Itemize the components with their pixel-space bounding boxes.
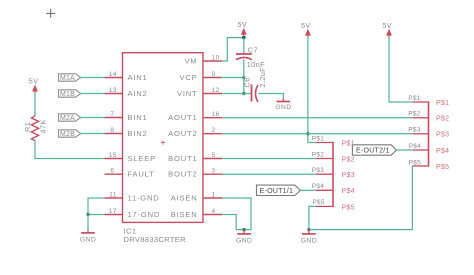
svg-text:M1B: M1B bbox=[60, 91, 75, 98]
svg-text:15: 15 bbox=[109, 152, 117, 159]
wire AOUT1 pin 16 to connector 2 P$2 bbox=[222, 117, 413, 119]
label flag M2B bbox=[59, 130, 81, 138]
svg-text:VINT: VINT bbox=[177, 89, 198, 98]
svg-text:P$3: P$3 bbox=[436, 132, 449, 139]
svg-text:P$2: P$2 bbox=[342, 156, 355, 163]
wire 5V to R1 top bbox=[34, 93, 36, 117]
resistor R1 bbox=[23, 116, 48, 141]
svg-text:5V: 5V bbox=[238, 20, 248, 29]
svg-text:GND: GND bbox=[275, 104, 291, 111]
wire E-OUT1/1 to connector 1 P$4 bbox=[300, 189, 316, 191]
svg-text:P$5: P$5 bbox=[342, 204, 355, 211]
wire E-OUT2/1 to connector 2 P$4 bbox=[396, 149, 412, 151]
wire BISEN pin 4 to GND bbox=[222, 215, 244, 230]
capacitor C6 bbox=[243, 67, 267, 102]
svg-text:P$2: P$2 bbox=[312, 151, 324, 158]
svg-text:P$4: P$4 bbox=[409, 143, 421, 150]
wire C6 right to GND bbox=[258, 94, 283, 99]
svg-text:M1A: M1A bbox=[60, 75, 75, 82]
svg-text:17: 17 bbox=[109, 208, 117, 215]
svg-text:GND: GND bbox=[80, 237, 96, 244]
svg-text:11-GND: 11-GND bbox=[128, 194, 160, 203]
svg-text:GND: GND bbox=[301, 237, 317, 244]
svg-text:1: 1 bbox=[212, 192, 216, 199]
svg-text:P$2: P$2 bbox=[436, 116, 449, 123]
svg-text:AISEN: AISEN bbox=[171, 194, 198, 203]
svg-text:47K: 47K bbox=[38, 119, 47, 133]
svg-text:P$2: P$2 bbox=[408, 111, 420, 118]
wire C7 bottom to VINT net bbox=[243, 60, 245, 94]
connector E-OUT1 pin names bbox=[342, 140, 355, 211]
IC1 left pin numbers bbox=[109, 71, 117, 215]
wire M2B to BIN2 bbox=[81, 133, 105, 135]
svg-text:P$3: P$3 bbox=[312, 167, 324, 174]
IC1 right pin numbers bbox=[212, 55, 220, 216]
svg-text:5V: 5V bbox=[301, 21, 311, 30]
wire pin 17-GND to vertical bbox=[88, 214, 105, 216]
supply 5V (top middle) bbox=[301, 21, 311, 37]
junction VCP / C7 vertical bbox=[242, 76, 245, 79]
supply 5V (left, above R1) bbox=[29, 76, 39, 93]
svg-text:5: 5 bbox=[212, 152, 216, 159]
svg-text:3: 3 bbox=[212, 168, 216, 175]
supply 5V (top right) bbox=[382, 21, 392, 37]
svg-text:AOUT1: AOUT1 bbox=[168, 113, 197, 122]
svg-text:FAULT: FAULT bbox=[128, 170, 155, 179]
label flag M1B bbox=[59, 90, 81, 98]
wire M1A to AIN1 bbox=[81, 77, 105, 79]
ground GND (below AISEN/BISEN) bbox=[236, 230, 252, 245]
wire VCP pin 9 to C7/VINT vertical bbox=[221, 77, 244, 79]
svg-text:AIN2: AIN2 bbox=[128, 89, 148, 98]
svg-text:AOUT2: AOUT2 bbox=[168, 129, 197, 138]
svg-text:BIN1: BIN1 bbox=[128, 113, 148, 122]
svg-text:P$1: P$1 bbox=[436, 100, 449, 107]
wire M1B to AIN2 bbox=[81, 93, 105, 95]
junction AOUT2 net / 5V vertical bbox=[306, 132, 309, 135]
svg-text:VCP: VCP bbox=[179, 73, 197, 82]
wire connector 1 P$5 to GND junction bbox=[309, 206, 316, 229]
svg-text:11: 11 bbox=[109, 192, 117, 199]
svg-text:16: 16 bbox=[212, 111, 220, 118]
sheet origin cross bbox=[46, 9, 55, 18]
net labels at connector E-OUT2 bbox=[408, 95, 421, 167]
svg-text:BIN2: BIN2 bbox=[128, 129, 148, 138]
svg-text:P$4: P$4 bbox=[342, 188, 355, 195]
wire GND junction to connector 2 P$5 bbox=[309, 166, 413, 230]
wire VINT pin 12 to C6 bbox=[222, 93, 251, 95]
label flag E-OUT2/1 bbox=[352, 145, 396, 155]
wire VM pin 10 up to 5V junction bbox=[222, 38, 244, 61]
svg-text:12: 12 bbox=[212, 87, 220, 94]
wire R1 bottom to SLEEP pin 15 bbox=[35, 141, 105, 159]
IC1 left pin stubs bbox=[105, 78, 123, 215]
svg-text:VM: VM bbox=[185, 57, 198, 66]
svg-text:BOUT1: BOUT1 bbox=[168, 154, 197, 163]
svg-text:9: 9 bbox=[212, 71, 216, 78]
wire junction down to GND bbox=[87, 215, 89, 231]
svg-text:P$5: P$5 bbox=[313, 199, 325, 206]
IC1 origin cross bbox=[161, 140, 165, 144]
op-amp IC1 DRV8833CRTER body bbox=[123, 53, 204, 223]
svg-text:DRV8833CRTER: DRV8833CRTER bbox=[124, 235, 187, 244]
connector E-OUT1 body bbox=[332, 142, 334, 208]
svg-text:R1: R1 bbox=[23, 122, 32, 132]
svg-text:14: 14 bbox=[109, 71, 117, 78]
svg-text:13: 13 bbox=[109, 87, 117, 94]
IC1 right pin stubs bbox=[203, 61, 222, 215]
label flag M2A bbox=[59, 114, 81, 122]
svg-text:5V: 5V bbox=[29, 76, 39, 85]
IC1 left pin names bbox=[128, 73, 161, 219]
junction C7/VINT bbox=[242, 92, 245, 95]
connector E-OUT2 pin stubs bbox=[413, 102, 429, 166]
svg-text:2.2uF: 2.2uF bbox=[258, 67, 267, 88]
wire 5V down to connector 1 pin P$1 bbox=[308, 37, 316, 143]
svg-text:P$1: P$1 bbox=[312, 135, 324, 142]
wire BOUT1 pin 5 to connector 1 P$2 bbox=[222, 158, 316, 160]
svg-text:C7: C7 bbox=[248, 45, 258, 54]
svg-text:4: 4 bbox=[212, 208, 216, 215]
svg-text:M2B: M2B bbox=[60, 131, 75, 138]
svg-text:7: 7 bbox=[110, 111, 114, 118]
ground GND (left, under IC) bbox=[80, 230, 96, 244]
junction VM/5V/C7 bbox=[242, 36, 246, 40]
svg-text:6: 6 bbox=[110, 168, 114, 175]
svg-text:P$4: P$4 bbox=[436, 148, 449, 155]
label flag M1A bbox=[59, 74, 81, 82]
connector E-OUT2 body bbox=[428, 101, 430, 166]
svg-text:GND: GND bbox=[236, 237, 252, 244]
wire junction down to C7 bbox=[243, 38, 245, 54]
wire AISEN pin 1 to GND bbox=[222, 198, 251, 230]
svg-text:SLEEP: SLEEP bbox=[128, 154, 156, 163]
svg-text:P$3: P$3 bbox=[408, 127, 420, 134]
svg-text:E-OUT1/1: E-OUT1/1 bbox=[260, 187, 294, 195]
svg-text:5V: 5V bbox=[382, 21, 392, 30]
svg-text:8: 8 bbox=[110, 127, 114, 134]
IC1 right pin names bbox=[168, 57, 197, 220]
ground GND (bottom middle) bbox=[301, 230, 317, 245]
wire pin 11-GND to vertical bbox=[88, 198, 105, 215]
svg-text:AIN1: AIN1 bbox=[128, 73, 148, 82]
connector E-OUT2 pin names bbox=[436, 100, 449, 171]
net labels at connector E-OUT1 bbox=[312, 135, 325, 206]
svg-text:E-OUT2/1: E-OUT2/1 bbox=[356, 147, 390, 155]
capacitor C7 bbox=[236, 45, 265, 69]
svg-text:P$3: P$3 bbox=[342, 172, 355, 179]
svg-text:BISEN: BISEN bbox=[171, 210, 198, 219]
svg-text:10: 10 bbox=[212, 55, 220, 62]
svg-text:P$1: P$1 bbox=[342, 140, 355, 147]
wire 5V down to connector 2 pin P$1 bbox=[389, 37, 413, 102]
junction AISEN/BISEN bbox=[242, 228, 245, 231]
wire M2A to BIN1 bbox=[81, 117, 105, 119]
svg-text:P$5: P$5 bbox=[436, 164, 449, 171]
svg-text:P$5: P$5 bbox=[409, 159, 421, 166]
svg-text:P$1: P$1 bbox=[408, 95, 420, 102]
svg-text:P$4: P$4 bbox=[312, 183, 324, 190]
supply 5V (above C7) bbox=[238, 20, 248, 37]
svg-text:BOUT2: BOUT2 bbox=[168, 170, 197, 179]
wire AOUT2 pin 2 to connector 2 P$3 bbox=[222, 133, 413, 135]
junction P$5 nets / GND bbox=[307, 228, 310, 231]
svg-text:17-GND: 17-GND bbox=[128, 210, 161, 219]
connector E-OUT1 pin stubs bbox=[316, 143, 333, 207]
ground GND (right of C6) bbox=[275, 98, 291, 111]
junction at GND wires bbox=[86, 213, 89, 216]
svg-text:2: 2 bbox=[212, 127, 216, 134]
svg-text:C6: C6 bbox=[243, 77, 252, 87]
wire BOUT2 pin 3 to connector 1 P$3 bbox=[222, 173, 316, 175]
label flag E-OUT1/1 bbox=[257, 185, 301, 195]
svg-text:M2A: M2A bbox=[60, 115, 75, 122]
